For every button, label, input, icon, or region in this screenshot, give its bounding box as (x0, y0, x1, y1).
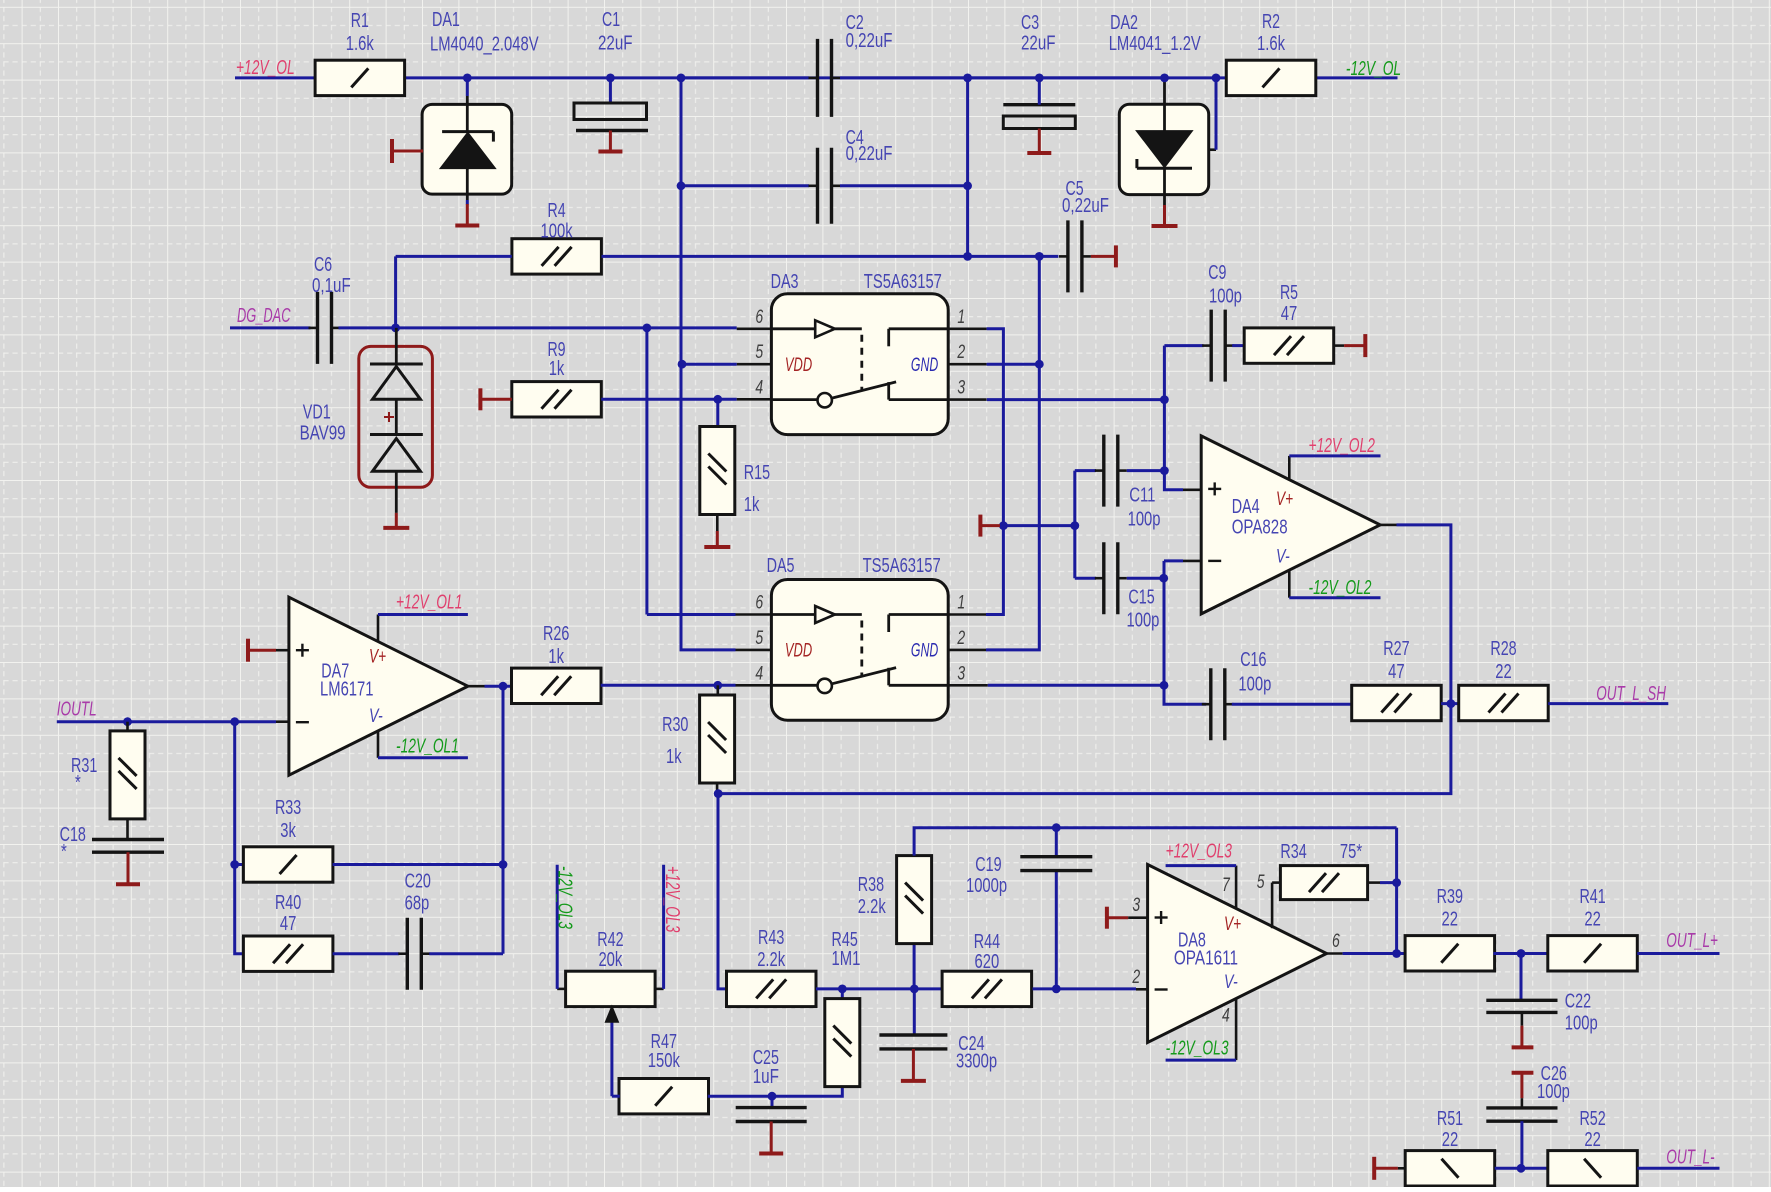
junction R31 tap (123, 717, 132, 726)
svg-text:OUT_L+: OUT_L+ (1666, 930, 1718, 952)
svg-text:R39: R39 (1437, 886, 1463, 908)
ground below C24 (912, 1049, 915, 1081)
+in pin of DA4 (1183, 488, 1201, 491)
svg-text:22: 22 (1584, 1129, 1601, 1151)
wire R27 to R28 (1441, 702, 1459, 705)
resistor R47 (619, 1079, 709, 1114)
svg-text:OUT_L-: OUT_L- (1666, 1147, 1715, 1169)
wire -12V_OL3 at DA8 (1166, 1059, 1237, 1062)
wire C1 to rail (609, 78, 612, 103)
wire C11 left to C15 left (1073, 471, 1076, 579)
junction C11 right tap (1160, 466, 1169, 475)
wire C4 to junction (840, 184, 968, 187)
wire to C2 (681, 76, 809, 79)
svg-text:+12V_OL: +12V_OL (236, 57, 295, 79)
-in pin of DA7 (276, 720, 289, 723)
wire R38 top rail to feedback (914, 828, 1397, 856)
capacitor C19 stubs (1055, 828, 1058, 857)
wire R34 to feedback (1380, 881, 1397, 884)
svg-text:3: 3 (957, 663, 965, 684)
capacitor C22 (1486, 999, 1557, 1002)
capacitor C1 (574, 103, 647, 120)
wire R9 to DA3 pin4 (601, 398, 737, 401)
wire R42 right to +12V_OL3 (662, 865, 665, 989)
svg-text:R42: R42 (597, 929, 623, 951)
svg-text:5: 5 (755, 342, 763, 363)
junction C4 out (963, 181, 972, 190)
svg-text:47: 47 (1281, 303, 1298, 325)
pin R15 bottom (716, 515, 719, 532)
diode VD1 BAV99 (359, 346, 433, 487)
svg-text:C20: C20 (405, 871, 431, 893)
wire C6 to DA3 pin6 (339, 326, 737, 329)
wire down to DA5 pin2 (986, 256, 1039, 650)
pin 3 of DA5 (948, 684, 988, 687)
svg-text:1k: 1k (548, 646, 564, 668)
pin C24 top (913, 989, 916, 1035)
wire to C9 (1164, 344, 1203, 347)
svg-text:R1: R1 (351, 10, 369, 32)
resistor R4 (512, 239, 602, 274)
svg-text:100p: 100p (1537, 1081, 1570, 1103)
wire DA7 out to R26 (485, 685, 512, 688)
wire +12V_OL3 at DA8 (1166, 864, 1237, 867)
svg-text:TS5A63157: TS5A63157 (864, 271, 942, 293)
pin 3 of DA3 (948, 398, 986, 401)
svg-text:R28: R28 (1490, 638, 1516, 660)
pin 1 of DA5 (948, 613, 986, 616)
op-amp DA7 (289, 597, 468, 775)
pin 5 of DA5 (736, 649, 772, 652)
junction DA2 top (1160, 74, 1169, 83)
+in pin 3 of DA8 (1128, 916, 1147, 919)
svg-text:+12V_OL1: +12V_OL1 (396, 591, 462, 613)
svg-text:DA1: DA1 (432, 9, 460, 31)
svg-text:47: 47 (1388, 661, 1405, 683)
resistor R9 (512, 382, 602, 417)
wire +12V_OL1 (378, 613, 468, 616)
capacitor C15 (1102, 542, 1105, 614)
pin R5 right (1334, 344, 1345, 347)
wire R41 to OUT_L+ (1637, 952, 1719, 955)
svg-text:1k: 1k (549, 358, 565, 380)
ground port at DA8 +in (1105, 907, 1109, 929)
svg-text:0,22uF: 0,22uF (1062, 195, 1109, 217)
svg-text:100p: 100p (1209, 286, 1242, 308)
svg-text:V-: V- (369, 706, 383, 727)
wire to C4 (681, 184, 809, 187)
wire DA2 right to rail (1215, 78, 1218, 150)
wire C9 to R5 (1232, 344, 1244, 347)
svg-text:0,22uF: 0,22uF (846, 143, 893, 165)
svg-text:DA4: DA4 (1232, 496, 1260, 518)
resistor R45 (825, 999, 860, 1087)
wire R39 to R41 (1493, 952, 1548, 955)
ground below C18 (127, 852, 130, 884)
wire R26 to DA5 pin4 (601, 684, 736, 687)
wire -in down to C16 (1164, 561, 1206, 704)
svg-text:R51: R51 (1437, 1108, 1463, 1130)
svg-text:R15: R15 (744, 462, 770, 484)
wire down to DG_DAC (394, 256, 397, 328)
svg-text:4: 4 (1222, 1006, 1230, 1027)
svg-text:1k: 1k (744, 494, 760, 516)
wire R30 to R43 (718, 794, 726, 989)
-in pin 2 of DA8 (1136, 988, 1148, 991)
wire rail to C3 (1038, 78, 1041, 105)
output pin of DA4 (1381, 524, 1397, 527)
junction C2C4 to R4 net (963, 252, 972, 261)
svg-text:1000p: 1000p (966, 875, 1007, 897)
svg-text:0,1uF: 0,1uF (312, 275, 351, 297)
svg-text:*: * (75, 772, 81, 794)
resistor R38 (897, 856, 932, 944)
junction C1 top (606, 74, 615, 83)
pin 5 of DA8 to R34 (1271, 883, 1274, 929)
svg-text:R26: R26 (543, 623, 569, 645)
junction DA5 pin3 tap (1160, 681, 1169, 690)
wire R52 to OUT_L- (1637, 1167, 1719, 1170)
ground port left of R9 (478, 388, 482, 410)
wire C20 to vertical (429, 952, 503, 955)
wire R28 to OUT_L_SH (1548, 702, 1668, 705)
svg-text:R43: R43 (758, 927, 784, 949)
pin R31 bottom (126, 818, 129, 839)
svg-text:R38: R38 (858, 874, 884, 896)
pin 2 of DA3 (948, 363, 986, 366)
svg-text:VDD: VDD (785, 355, 812, 376)
svg-text:LM6171: LM6171 (320, 679, 374, 701)
wire R51 to R52 (1495, 1167, 1548, 1170)
svg-text:100p: 100p (1127, 609, 1160, 631)
wire +12V_OL2 (1289, 454, 1380, 457)
resistor R52 (1548, 1151, 1638, 1186)
junction GND net tap (999, 521, 1008, 530)
junction R45 top tap (838, 985, 847, 994)
ground below VD1 (395, 513, 398, 528)
wire rail down to C4 level (680, 78, 683, 186)
resistor R5 (1244, 328, 1334, 363)
junction C2 out top (963, 74, 972, 83)
junction C19 top tap (1052, 823, 1061, 832)
wire +12V_OL to R1 (235, 76, 315, 79)
wire R40 to C20 (333, 952, 400, 955)
svg-text:3: 3 (1132, 895, 1140, 916)
svg-text:1: 1 (957, 307, 965, 328)
ground below DA1 (466, 204, 469, 226)
svg-text:DA5: DA5 (767, 555, 795, 577)
svg-text:1: 1 (957, 593, 965, 614)
capacitor C11 (1102, 435, 1105, 507)
svg-text:R27: R27 (1383, 638, 1409, 660)
junction R15 tap (713, 395, 722, 404)
svg-text:R5: R5 (1280, 282, 1298, 304)
capacitor C9 (1209, 310, 1212, 382)
svg-text:IOUTL: IOUTL (57, 698, 97, 720)
wire -in feedback branch (235, 722, 244, 954)
pin 4 of DA3 (737, 398, 772, 401)
wire R47 to R45 bottom (708, 1087, 843, 1097)
wire R43 to R44 (816, 987, 941, 990)
ground below C25 (770, 1122, 773, 1154)
capacitor C18 (92, 838, 164, 841)
svg-text:4: 4 (755, 378, 763, 399)
wire x681 down to DA5 pin5 (681, 186, 736, 650)
wire C15 right (1127, 577, 1164, 580)
wire DA4 output feedback loop (718, 525, 1451, 794)
resistor R1 (315, 60, 405, 95)
wire R4 to C5 (602, 255, 1059, 258)
wire IOUTL (57, 720, 276, 723)
capacitor C19 (1020, 855, 1092, 858)
svg-text:5: 5 (1257, 872, 1265, 893)
wire to DA2 (968, 76, 1165, 79)
V- power pin of DA4 (1288, 570, 1291, 598)
pin R15 top (716, 399, 719, 426)
capacitor C24 (879, 1033, 947, 1036)
port above C26 (1512, 1071, 1534, 1075)
resistor R31 (110, 731, 145, 819)
wire -12V_OL1 (378, 756, 468, 759)
wire R1 to R2 top rail (404, 76, 1227, 79)
svg-text:2: 2 (957, 342, 966, 363)
ground below C3 (1038, 129, 1041, 154)
analog switch DA5 TS5A63157 (771, 580, 948, 721)
wire x681 to DA3 pin5 (682, 363, 737, 364)
svg-text:OUT_L_SH: OUT_L_SH (1596, 683, 1666, 705)
resistor R34 (1280, 866, 1367, 900)
svg-text:2: 2 (957, 628, 966, 649)
svg-text:+12V_OL3: +12V_OL3 (661, 866, 683, 932)
resistor R40 (243, 936, 333, 971)
junction R2 left (1212, 74, 1221, 83)
svg-text:R44: R44 (974, 931, 1000, 953)
pin R30 bottom (716, 783, 719, 793)
svg-text:OPA828: OPA828 (1232, 517, 1288, 539)
pin 4 of DA5 (736, 684, 772, 687)
svg-text:5: 5 (755, 628, 763, 649)
junction pin3 tap (1160, 395, 1169, 404)
svg-text:100p: 100p (1238, 674, 1271, 696)
resistor R41 (1548, 936, 1638, 971)
svg-text:V+: V+ (1276, 489, 1293, 510)
ground below C22 (1521, 1012, 1524, 1025)
svg-text:V+: V+ (1224, 914, 1241, 935)
wire C2 to junction (840, 76, 968, 79)
pin 6 of DA5 (736, 613, 772, 616)
svg-text:6: 6 (1332, 931, 1340, 952)
junction R34 tap (1392, 878, 1401, 887)
svg-text:GND: GND (911, 641, 938, 662)
junction C25 tap (768, 1092, 777, 1101)
svg-text:20k: 20k (598, 949, 623, 971)
svg-text:22: 22 (1442, 1129, 1459, 1151)
capacitor C3 (1003, 103, 1075, 106)
svg-text:C22: C22 (1565, 991, 1591, 1013)
svg-text:6: 6 (755, 307, 763, 328)
svg-text:-12V_OL: -12V_OL (1346, 58, 1401, 80)
wire R42 left to -12V_OL3 (556, 865, 559, 989)
junction DA7 out tap (499, 682, 508, 691)
output pin 6 of DA8 (1325, 952, 1343, 955)
wire feedback vertical (1395, 828, 1398, 954)
svg-text:2: 2 (1132, 967, 1141, 988)
svg-text:100p: 100p (1565, 1012, 1598, 1034)
resistor R30 (700, 695, 735, 783)
svg-text:DG_DAC: DG_DAC (237, 305, 291, 327)
junction OUT_L_SH tap (1447, 699, 1456, 708)
wire R44 to DA8 -in (1033, 987, 1137, 990)
junction DA3 pin5 tap (678, 360, 687, 369)
pin C25 top (771, 1096, 774, 1107)
wire DA3 pin1 to DA5 pin1 (986, 329, 1003, 615)
svg-text:OPA1611: OPA1611 (1174, 948, 1238, 970)
svg-text:DA2: DA2 (1110, 12, 1138, 34)
pin R38 bottom (913, 944, 916, 989)
svg-text:22: 22 (1584, 909, 1601, 931)
svg-text:22: 22 (1442, 909, 1459, 931)
svg-text:22: 22 (1495, 661, 1512, 683)
capacitor C26 top stub (1521, 1098, 1524, 1108)
op-amp DA8 (1148, 865, 1327, 1043)
pin DA2 right (1209, 148, 1216, 151)
pin R51 left (1398, 1167, 1405, 1170)
svg-text:V-: V- (1224, 972, 1238, 993)
wire DA5 pin3 to tap (988, 684, 1164, 687)
resistor R27 (1352, 685, 1442, 720)
ground port left of R51 (1372, 1157, 1376, 1180)
svg-text:TS5A63157: TS5A63157 (863, 555, 941, 577)
resistor R44 (942, 971, 1032, 1006)
resistor R2 (1226, 60, 1316, 95)
resistor R28 (1459, 685, 1549, 720)
svg-text:C15: C15 (1128, 586, 1154, 608)
junction C15 right tap (1159, 574, 1168, 583)
junction C11C15 left tap (1070, 521, 1079, 530)
svg-text:V-: V- (1276, 547, 1290, 568)
svg-text:-12V_OL3: -12V_OL3 (554, 866, 576, 929)
svg-text:3300p: 3300p (956, 1050, 997, 1072)
junction pin2 net tap (1035, 360, 1044, 369)
wire C16 to R27 (1232, 703, 1352, 706)
svg-text:R2: R2 (1262, 11, 1280, 33)
analog switch DA3 TS5A63157 (771, 294, 948, 435)
wire DA7 out down to R33/C20 (502, 686, 505, 954)
junction R30 top tap (713, 681, 722, 690)
wire DA3 pin2 (987, 363, 1040, 366)
pin R31 top (126, 722, 129, 732)
resistor R26 (512, 668, 602, 703)
svg-text:LM4041_1.2V: LM4041_1.2V (1109, 33, 1202, 55)
junction R33 left tap (230, 860, 239, 869)
wire C9/pin3/C11 to DA4 +in (1164, 346, 1183, 490)
svg-text:6: 6 (755, 593, 763, 614)
svg-text:3: 3 (957, 378, 965, 399)
capacitor C6 (316, 292, 319, 364)
wire DA3 pin3 (987, 398, 1165, 401)
junction R4/VD1 tap (391, 324, 400, 333)
V+ power pin of DA7 (377, 615, 380, 642)
wire C22 top (1520, 954, 1523, 1001)
junction C26 bottom tap (1517, 1164, 1526, 1173)
svg-text:R40: R40 (275, 892, 301, 914)
svg-text:22uF: 22uF (1021, 32, 1056, 54)
svg-text:+12V_OL3: +12V_OL3 (1166, 841, 1232, 863)
wire DA8 out to R39 (1343, 952, 1407, 955)
wire to C15 (1075, 577, 1096, 580)
junction C19 bottom tap (1052, 985, 1061, 994)
capacitor C5 (1066, 220, 1069, 292)
svg-text:100p: 100p (1128, 509, 1161, 531)
svg-text:*: * (61, 841, 67, 863)
+in pin of DA7 (276, 649, 289, 652)
svg-text:2.2k: 2.2k (757, 949, 786, 971)
junction R33 right tap (499, 860, 508, 869)
wire down to R4-C5 net (966, 78, 969, 257)
ground port near C11 (978, 515, 982, 537)
svg-text:R41: R41 (1579, 886, 1605, 908)
svg-text:3k: 3k (280, 820, 296, 842)
capacitor C20 (406, 918, 409, 990)
ground below C1 (609, 131, 612, 152)
svg-text:1.6k: 1.6k (346, 33, 375, 55)
wire C26 bottom (1520, 1121, 1523, 1168)
wire down to DA5 pin6 (645, 328, 648, 615)
resistor R42 (566, 971, 656, 1006)
wire R2 to -12V_OL (1315, 76, 1398, 79)
wire R33 right (333, 863, 503, 866)
junction R38/C24 tap (910, 985, 919, 994)
svg-text:VDD: VDD (785, 641, 812, 662)
junction C2 branch (677, 74, 686, 83)
V- power pin 4 of DA8 (1235, 998, 1238, 1060)
junction C3 top (1035, 74, 1044, 83)
svg-text:C3: C3 (1021, 12, 1039, 34)
pin R30 top (716, 685, 719, 694)
resistor R39 (1405, 936, 1495, 971)
svg-text:VD1: VD1 (303, 402, 331, 424)
wire rail to DA1 (466, 78, 469, 96)
pin 1 of DA3 (948, 327, 986, 330)
resistor R43 (727, 971, 817, 1006)
capacitor C25 (736, 1106, 807, 1109)
junction branch to DA3 pin2 (1035, 252, 1044, 261)
ground port right of R5 (1363, 334, 1367, 357)
svg-text:GND: GND (911, 355, 938, 376)
pin R34 right (1368, 881, 1380, 884)
svg-text:4: 4 (755, 663, 763, 684)
-in pin of DA4 (1183, 560, 1201, 563)
svg-text:+12V_OL2: +12V_OL2 (1309, 435, 1375, 457)
svg-text:75*: 75* (1340, 841, 1362, 863)
pin 5 of DA3 (737, 363, 772, 366)
svg-text:C9: C9 (1208, 262, 1226, 284)
ground port left of DA1 (390, 139, 394, 163)
svg-text:2.2k: 2.2k (858, 896, 887, 918)
svg-text:C11: C11 (1129, 485, 1155, 507)
svg-text:DA3: DA3 (771, 271, 799, 293)
pin 6 of DA3 (737, 327, 772, 330)
wire to DA5 pin6 (647, 613, 736, 616)
junction C22 tap (1517, 949, 1526, 958)
wire to C11 (1075, 469, 1096, 472)
pin R45 top (841, 989, 844, 999)
svg-text:0,22uF: 0,22uF (846, 30, 893, 52)
junction feedback tap (230, 717, 239, 726)
svg-text:R52: R52 (1579, 1108, 1605, 1130)
svg-text:1uF: 1uF (753, 1066, 779, 1088)
svg-text:620: 620 (975, 951, 1000, 973)
